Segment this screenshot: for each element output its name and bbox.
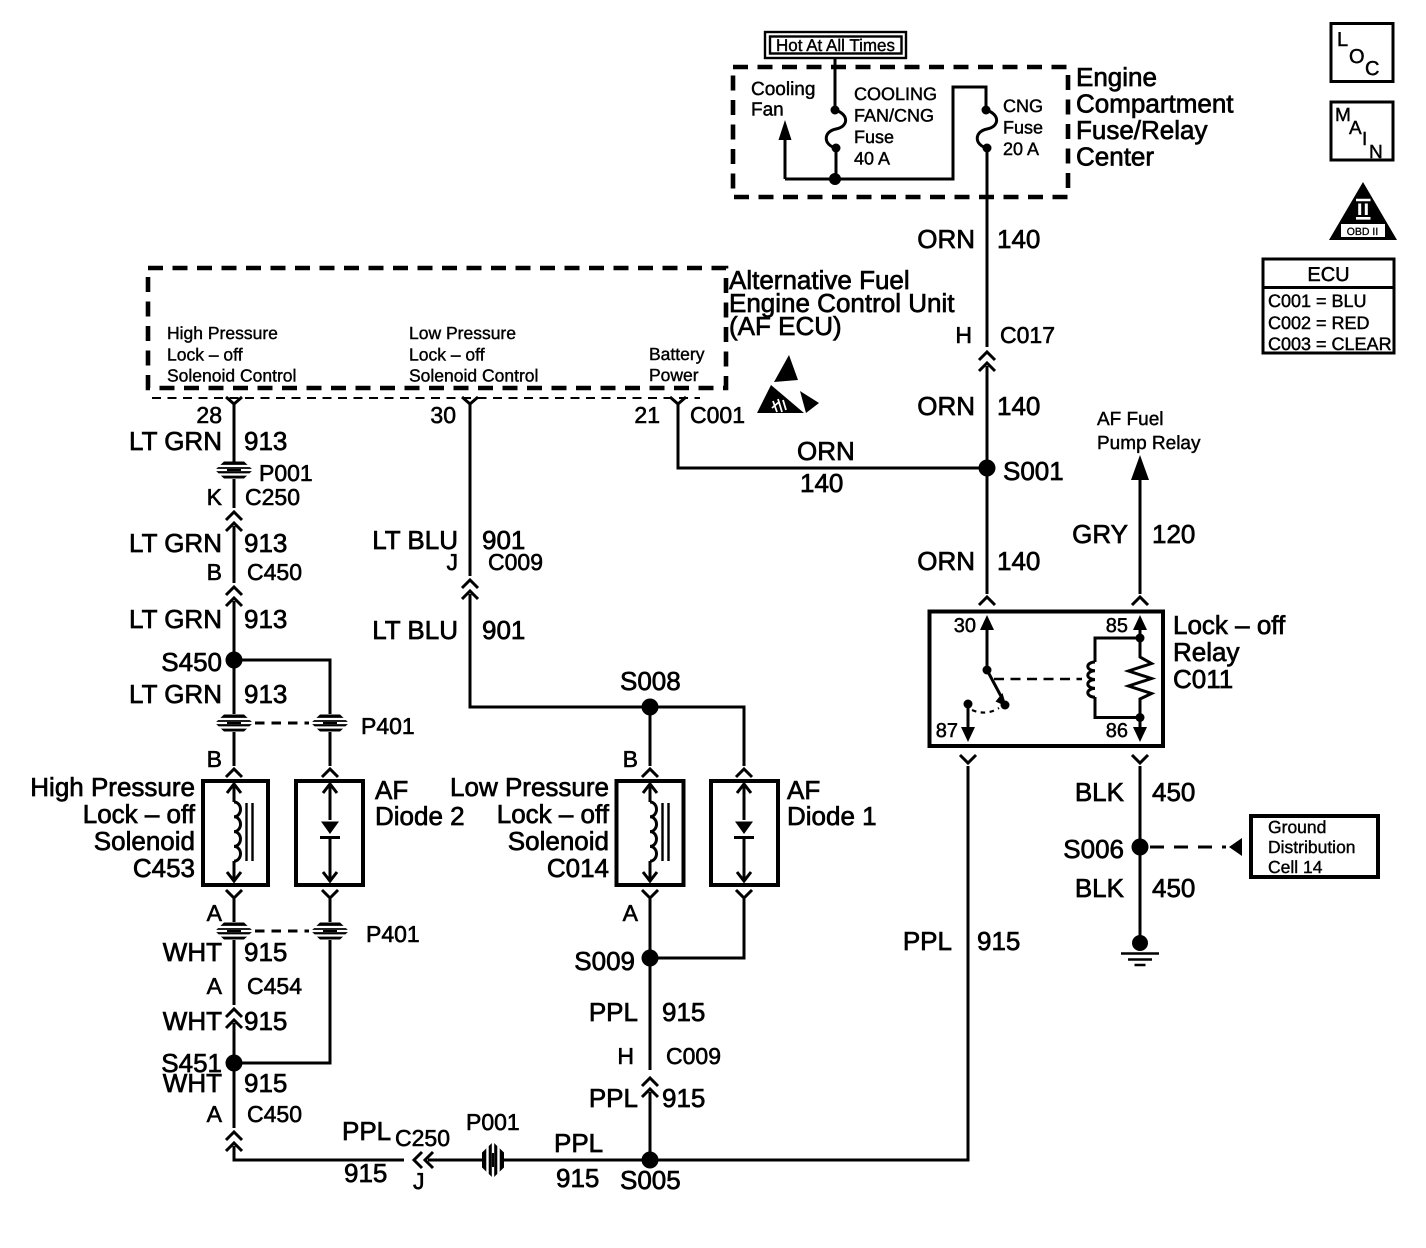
svg-text:WHT: WHT <box>163 937 222 967</box>
svg-text:A: A <box>207 1101 223 1127</box>
Engine Compartment Fuse/Relay Center dashed box <box>733 67 1068 197</box>
svg-text:Fan: Fan <box>751 100 784 121</box>
svg-text:(AF ECU): (AF ECU) <box>729 311 842 341</box>
svg-text:PPL: PPL <box>342 1116 391 1146</box>
wire LT GRN: pin 28 to P001 <box>233 404 236 462</box>
svg-text:30: 30 <box>430 402 456 428</box>
svg-text:Solenoid: Solenoid <box>508 826 609 856</box>
svg-text:LT GRN: LT GRN <box>129 528 222 558</box>
svg-text:P001: P001 <box>259 460 313 486</box>
svg-text:C450: C450 <box>247 559 302 585</box>
splice S005 <box>620 1152 681 1196</box>
wire PPL: C009 to S005 <box>649 1092 652 1160</box>
svg-text:WHT: WHT <box>163 1006 222 1036</box>
svg-text:PPL: PPL <box>589 1083 638 1113</box>
svg-text:C450: C450 <box>247 1101 302 1127</box>
svg-text:BLK: BLK <box>1075 777 1125 807</box>
svg-text:J: J <box>447 549 459 575</box>
label GRY 120 <box>1072 519 1195 549</box>
svg-text:Low Pressure: Low Pressure <box>409 323 516 343</box>
relay coil <box>1088 638 1140 718</box>
svg-text:86: 86 <box>1106 720 1128 742</box>
svg-text:Solenoid Control: Solenoid Control <box>167 366 296 386</box>
AF ECU dashed box <box>148 268 726 388</box>
svg-text:LT GRN: LT GRN <box>129 679 222 709</box>
svg-text:ORN: ORN <box>917 391 975 421</box>
svg-text:O: O <box>1349 46 1365 68</box>
label Engine Compartment Fuse/Relay Center <box>1076 62 1234 172</box>
label PPL 915 (bottom mid) <box>554 1128 603 1193</box>
svg-text:C453: C453 <box>133 853 195 883</box>
svg-text:Ground: Ground <box>1268 817 1326 837</box>
svg-text:Battery: Battery <box>649 344 705 364</box>
svg-text:120: 120 <box>1152 519 1195 549</box>
wire WHT: S451 to C450 <box>233 1063 236 1128</box>
svg-text:LT GRN: LT GRN <box>129 426 222 456</box>
label LT GRN 913 (3) <box>129 604 287 634</box>
Hot At All Times tag <box>765 32 906 58</box>
svg-text:LT BLU: LT BLU <box>372 525 458 555</box>
connector C001 dashed line <box>152 397 700 399</box>
wire GRY: relay pin 85 to AF Fuel Pump Relay <box>1131 455 1149 594</box>
svg-text:J: J <box>413 1168 425 1194</box>
svg-text:C017: C017 <box>1000 322 1055 348</box>
svg-text:C454: C454 <box>247 973 302 999</box>
svg-text:S005: S005 <box>620 1165 681 1195</box>
svg-text:BLK: BLK <box>1075 873 1125 903</box>
svg-text:Fuse: Fuse <box>1003 118 1043 138</box>
svg-text:140: 140 <box>997 391 1040 421</box>
Ground Distribution Cell 14 box <box>1251 816 1378 877</box>
svg-text:913: 913 <box>244 528 287 558</box>
label AF Fuel Pump Relay <box>1097 409 1201 454</box>
relay resistor <box>1129 638 1152 718</box>
wire PPL: C250 to P001 <box>428 1159 483 1162</box>
wire LT GRN: S450 to P401 <box>233 660 236 714</box>
svg-text:H: H <box>617 1043 634 1069</box>
svg-text:Fuse/Relay: Fuse/Relay <box>1076 115 1208 145</box>
svg-text:C250: C250 <box>245 484 300 510</box>
label AF Diode 2 <box>375 775 465 831</box>
svg-text:N: N <box>1369 142 1383 163</box>
svg-text:C001: C001 <box>690 402 745 428</box>
connector C017 pin H <box>955 322 1055 371</box>
connector C450 pin B <box>207 559 302 606</box>
svg-text:CNG: CNG <box>1003 96 1043 116</box>
svg-text:Lock – off: Lock – off <box>409 345 485 365</box>
wire ORN: C017 to S001 <box>986 366 989 468</box>
wire BLK: S006 to ground G <box>1139 847 1142 937</box>
svg-text:ECU: ECU <box>1307 264 1349 286</box>
svg-text:COOLING: COOLING <box>854 84 937 104</box>
svg-text:H: H <box>955 322 972 348</box>
splice S451 <box>161 1048 242 1078</box>
svg-text:C002 = RED: C002 = RED <box>1268 313 1370 333</box>
svg-text:28: 28 <box>196 402 222 428</box>
wire LT BLU: pin 30 to C009 <box>469 404 472 576</box>
svg-text:915: 915 <box>244 1068 287 1098</box>
MAIN symbol box <box>1331 102 1393 163</box>
splice S009 <box>574 946 658 976</box>
svg-text:B: B <box>207 559 222 585</box>
svg-text:20 A: 20 A <box>1003 139 1039 159</box>
svg-text:A: A <box>207 973 223 999</box>
svg-text:PPL: PPL <box>903 926 952 956</box>
AF Diode 2 lower pin <box>322 890 338 922</box>
label PPL 915 (mid 1) <box>589 997 706 1027</box>
svg-text:FAN/CNG: FAN/CNG <box>854 106 934 126</box>
wire branch: S008 to AF Diode 1 <box>650 707 752 777</box>
svg-text:ORN: ORN <box>797 436 855 466</box>
AF Diode 2 <box>296 781 363 885</box>
svg-text:Lock – off: Lock – off <box>1173 610 1286 640</box>
label LT GRN 913 (2) <box>129 528 287 558</box>
label LT GRN 913 (4) <box>129 679 287 709</box>
label LT BLU 901 (2) <box>372 615 525 645</box>
svg-text:Fuse: Fuse <box>854 127 894 147</box>
wire ORN: CNG fuse to C017 <box>986 148 989 347</box>
svg-text:85: 85 <box>1106 615 1128 637</box>
wire: fuse junction to cooling fan arrow and CNG riser <box>785 87 986 185</box>
label Alternative Fuel Engine Control Unit (AF ECU) <box>729 265 955 341</box>
wire WHT: C454 to S451 <box>233 1023 236 1063</box>
wire: P401 to AF Diode 2 <box>322 732 338 777</box>
svg-text:915: 915 <box>244 937 287 967</box>
grommet P401 upper pair <box>215 713 415 739</box>
svg-text:901: 901 <box>482 615 525 645</box>
svg-text:S009: S009 <box>574 946 635 976</box>
svg-text:A: A <box>207 900 223 926</box>
svg-text:A: A <box>623 900 639 926</box>
connector C250 pin J horizontal <box>395 1125 450 1194</box>
Lock-off Relay C011 box <box>930 612 1164 747</box>
relay pin 87 label <box>936 720 958 742</box>
splice S006 <box>1063 834 1148 864</box>
svg-text:S006: S006 <box>1063 834 1124 864</box>
relay switch travel dashed arc <box>972 708 999 713</box>
svg-text:Lock – off: Lock – off <box>167 345 243 365</box>
relay common arm from pin 30 <box>980 615 1010 710</box>
ECU connector table <box>1263 259 1394 354</box>
svg-text:Lock – off: Lock – off <box>497 799 610 829</box>
HP solenoid pin A <box>207 890 242 926</box>
label Low Pressure Lock-off Solenoid Control <box>409 323 538 386</box>
svg-text:Lock – off: Lock – off <box>83 799 196 829</box>
svg-text:P001: P001 <box>466 1109 520 1135</box>
wire WHT: P401 to C454 <box>233 940 236 1005</box>
splice S450 <box>161 647 242 677</box>
label ORN 140 upper <box>917 224 1040 254</box>
relay contact to pin 87 <box>961 700 975 743</box>
pin terminal at relay pin 85 <box>1132 597 1148 605</box>
svg-text:140: 140 <box>997 546 1040 576</box>
svg-text:913: 913 <box>244 679 287 709</box>
label CNG Fuse 20 A <box>1003 96 1043 159</box>
svg-text:S008: S008 <box>620 666 681 696</box>
wire ORN: S001 to relay pin 30 <box>986 468 989 594</box>
svg-text:Center: Center <box>1076 142 1154 172</box>
label BLK 450 (1) <box>1075 777 1196 807</box>
relay pin 85 arrow <box>1133 615 1147 643</box>
svg-text:Cooling: Cooling <box>751 79 815 100</box>
wire: Hot At All Times to fuse F1 <box>834 58 837 108</box>
wire LT GRN: P001 to C250 <box>233 479 236 508</box>
connector C450 pin A lower <box>207 1101 302 1151</box>
label WHT 915 (3) <box>163 1068 288 1098</box>
label PPL 915 (mid 2) <box>589 1083 706 1113</box>
svg-text:Diode 1: Diode 1 <box>787 801 877 831</box>
svg-text:AF Fuel: AF Fuel <box>1097 409 1164 430</box>
svg-text:87: 87 <box>936 720 958 742</box>
label BLK 450 (2) <box>1075 873 1196 903</box>
label PPL 915 (riser) <box>903 926 1021 956</box>
relay pin 86 arrow <box>1133 713 1147 742</box>
svg-text:913: 913 <box>244 604 287 634</box>
fuse COOLING FAN/CNG 40 A <box>826 106 845 177</box>
svg-text:PPL: PPL <box>554 1128 603 1158</box>
LP solenoid pin A <box>623 890 658 958</box>
label High Pressure Lock-off Solenoid Control <box>167 323 296 386</box>
svg-text:Engine: Engine <box>1076 62 1157 92</box>
svg-text:L: L <box>1337 29 1348 51</box>
label Lock-off Relay C011 <box>1173 610 1286 694</box>
svg-text:K: K <box>207 484 223 510</box>
svg-text:40 A: 40 A <box>854 149 890 169</box>
label COOLING FAN/CNG Fuse 40 A <box>854 84 937 169</box>
relay pin 85 label <box>1106 615 1128 637</box>
wire: P401 to HP solenoid pin B <box>207 732 242 777</box>
svg-text:Low Pressure: Low Pressure <box>450 772 609 802</box>
grommet P401 lower pair <box>215 921 420 947</box>
svg-text:Relay: Relay <box>1173 637 1239 667</box>
ECU pin 30 <box>430 397 478 428</box>
svg-text:I: I <box>1362 129 1367 150</box>
svg-text:C011: C011 <box>1173 664 1233 694</box>
svg-text:C001 = BLU: C001 = BLU <box>1268 291 1367 311</box>
svg-text:P401: P401 <box>366 921 420 947</box>
junction S001 <box>979 456 1064 486</box>
svg-text:915: 915 <box>244 1006 287 1036</box>
wire PPL: C450 corner to C250 <box>234 1146 404 1160</box>
cooling fan arrow <box>779 120 792 179</box>
svg-text:Distribution: Distribution <box>1268 837 1356 857</box>
AF Diode 1 lower pin to S009 <box>658 890 752 958</box>
svg-text:913: 913 <box>244 426 287 456</box>
pin terminal at relay pin 30 <box>979 597 995 605</box>
grommet P001 horizontal run <box>466 1109 520 1178</box>
label WHT 915 (2) <box>163 1006 288 1036</box>
svg-text:LT BLU: LT BLU <box>372 615 458 645</box>
svg-text:P401: P401 <box>361 713 415 739</box>
splice S008 <box>620 666 681 716</box>
svg-text:ORN: ORN <box>917 224 975 254</box>
OBD II triangle symbol <box>1329 182 1397 240</box>
svg-text:ORN: ORN <box>917 546 975 576</box>
svg-text:Solenoid Control: Solenoid Control <box>409 366 538 386</box>
svg-text:915: 915 <box>977 926 1020 956</box>
svg-text:140: 140 <box>997 224 1040 254</box>
svg-text:915: 915 <box>662 1083 705 1113</box>
Low Pressure Lock-off Solenoid C014 <box>617 781 684 885</box>
label Battery Power <box>649 344 705 385</box>
svg-text:Hot At All Times: Hot At All Times <box>776 36 895 55</box>
svg-text:B: B <box>207 746 222 772</box>
svg-text:Diode 2: Diode 2 <box>375 801 465 831</box>
svg-text:915: 915 <box>662 997 705 1027</box>
svg-text:S450: S450 <box>161 647 222 677</box>
svg-text:WHT: WHT <box>163 1068 222 1098</box>
wire PPL: S005 to relay pin 87 <box>650 766 968 1160</box>
svg-text:S001: S001 <box>1003 456 1064 486</box>
svg-text:915: 915 <box>556 1163 599 1193</box>
label LT BLU 901 (1) <box>372 525 525 555</box>
wire: S008 to LP solenoid pin B <box>623 707 658 777</box>
svg-text:OBD II: OBD II <box>1347 226 1379 238</box>
ECU pin 21 / connector C001 <box>634 397 745 428</box>
ground symbol <box>1121 935 1159 965</box>
svg-text:C: C <box>1365 58 1379 80</box>
svg-text:LT GRN: LT GRN <box>129 604 222 634</box>
svg-text:Pump Relay: Pump Relay <box>1097 433 1201 454</box>
svg-text:Power: Power <box>649 365 699 385</box>
label ORN 140 (pin 21 run) <box>797 436 855 498</box>
label Cooling Fan <box>751 79 815 121</box>
label ORN 140 lower <box>917 546 1040 576</box>
svg-text:C014: C014 <box>547 853 609 883</box>
label Low Pressure Lock-off Solenoid C014 <box>450 772 610 883</box>
relay pin 87 lower terminal <box>960 755 976 763</box>
svg-text:140: 140 <box>800 468 843 498</box>
svg-text:30: 30 <box>954 615 976 637</box>
connector C454 pin A <box>207 973 303 1028</box>
connector C009 pin H <box>617 1043 721 1097</box>
svg-text:A: A <box>1349 118 1362 139</box>
dashed reference to Ground Distribution <box>1150 838 1242 856</box>
LOC symbol box <box>1331 24 1393 82</box>
label High Pressure Lock-off Solenoid C453 <box>30 772 196 883</box>
ECU pin 28 <box>196 397 242 428</box>
svg-text:C009: C009 <box>488 549 543 575</box>
svg-text:B: B <box>623 746 638 772</box>
wire PPL: S009 to C009 <box>649 958 652 1070</box>
svg-text:Solenoid: Solenoid <box>94 826 195 856</box>
svg-text:High Pressure: High Pressure <box>167 323 278 343</box>
connector C009 pin J <box>447 549 543 599</box>
svg-text:21: 21 <box>634 402 660 428</box>
ESD sensitive symbol <box>757 355 819 413</box>
svg-text:C009: C009 <box>666 1043 721 1069</box>
relay pin 86 label <box>1106 720 1128 742</box>
label LT GRN 913 (1) <box>129 426 287 456</box>
grommet P001 <box>215 460 313 486</box>
svg-text:450: 450 <box>1152 777 1195 807</box>
svg-text:450: 450 <box>1152 873 1195 903</box>
connector C250 pin K <box>207 484 300 531</box>
svg-text:Cell 14: Cell 14 <box>1268 857 1323 877</box>
label AF Diode 1 <box>787 775 877 831</box>
svg-text:PPL: PPL <box>589 997 638 1027</box>
svg-text:C003 = CLEAR: C003 = CLEAR <box>1268 334 1392 354</box>
svg-text:High Pressure: High Pressure <box>30 772 195 802</box>
wire branch: S450 to AF Diode 2 <box>234 660 330 714</box>
label ORN 140 mid <box>917 391 1040 421</box>
wire branch: AF Diode 2 to S451 <box>242 940 330 1063</box>
AF Diode 1 <box>711 781 778 885</box>
wire LT GRN: C450 to S450 <box>233 601 236 660</box>
relay mechanical link dashed <box>994 678 1082 681</box>
wire BLK: relay pin 86 to S006 <box>1139 766 1142 847</box>
wire LT BLU: C009 to S008 <box>470 594 650 707</box>
relay pin 86 lower terminal <box>1132 755 1148 763</box>
relay pin 30 label <box>954 615 976 637</box>
svg-text:C250: C250 <box>395 1125 450 1151</box>
svg-text:915: 915 <box>344 1158 387 1188</box>
wire LT GRN: C250 to C450 <box>233 526 236 583</box>
label WHT 915 (1) <box>163 937 288 967</box>
fuse CNG 20 A <box>977 106 996 153</box>
svg-text:Compartment: Compartment <box>1076 89 1234 119</box>
svg-text:GRY: GRY <box>1072 519 1128 549</box>
wire PPL: P001 to S005 <box>503 1159 650 1162</box>
High Pressure Lock-off Solenoid C453 <box>203 781 268 885</box>
label PPL 915 (bottom left) <box>342 1116 391 1188</box>
wire ORN: pin 21 to S001 <box>678 404 984 468</box>
